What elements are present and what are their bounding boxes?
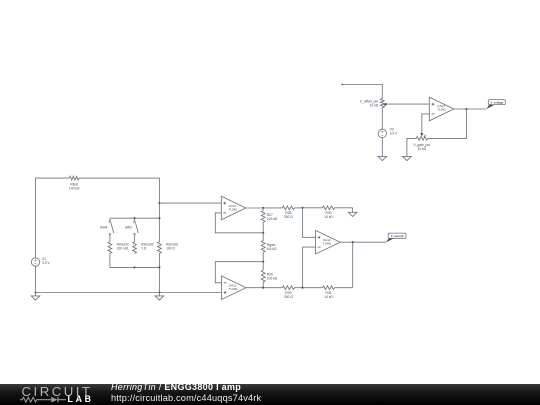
node Rgain-R26 tap [262,261,264,263]
wire stub to V_offset_pot top [342,85,382,99]
op-amp OA01 TL081 [429,97,454,121]
wire pot bottom to V3 [381,108,383,130]
wire R28 node to OA12 noninverting input [303,208,316,238]
svg-text:SW4: SW4 [100,226,107,230]
wire OA01 inverting input to wiper [422,114,430,135]
voltage source V1 [31,257,50,266]
op-amp OA12 TL081 [316,230,341,254]
svg-text:3.3 V: 3.3 V [42,261,50,265]
resistor R28 [263,206,302,219]
node dangling wire end [341,84,343,86]
node bottom rail / ground tap [158,291,160,293]
wire to OA10 noninverting input [159,202,221,204]
node OA01 output junction [465,108,467,110]
svg-text:330 Ω: 330 Ω [284,295,293,299]
resistor Rtest [69,176,80,190]
wire pot wiper to OA01 noninverting input [386,103,429,105]
wire OA10 output [246,207,263,209]
wire V1 top up and right to Rtest [36,178,70,258]
node main vertical / OA10 input [158,202,160,204]
node bottom rail left [34,291,36,293]
svg-text:TL081: TL081 [229,208,238,212]
svg-text:10 kΩ: 10 kΩ [369,104,378,108]
wire main vertical down [158,203,160,218]
svg-text:10 kΩ: 10 kΩ [324,215,333,219]
potentiometer V_offset_pot [360,99,387,108]
voltage source V3 [378,128,398,138]
wire shunt bottom rail [135,266,160,268]
wire feedback from output down to V_gain_pot right [428,109,467,138]
wire OA10 feedback to R27-Rgain node [215,213,263,233]
resistor Rgain [261,233,277,262]
node shunt bottom rail right [158,266,160,268]
wire bottom rail [36,292,222,294]
svg-text:100 mΩ: 100 mΩ [117,246,129,250]
resistor R29 [263,286,302,299]
wire V_gain_pot left to ground [407,138,416,156]
wire OA12 output [340,241,386,243]
svg-text:TL081: TL081 [323,242,332,246]
svg-text:V_current: V_current [391,234,404,238]
node OA10 output / R27 / R28 [262,207,264,209]
node switch rail middle [133,217,135,219]
wire down to bottom rail [158,267,160,292]
node R29 / R31 / OA12 - [302,287,304,289]
resistor R31 [303,286,353,299]
ground below V3 [378,156,387,160]
switch SW4 [100,218,114,242]
svg-text:3.3 V: 3.3 V [390,131,398,135]
svg-text:TL081: TL081 [437,108,446,112]
wire V1 bottom [35,266,37,292]
svg-text:330 Ω: 330 Ω [284,215,293,219]
op-amp OA10 TL081 [221,196,246,220]
wire V3 to ground [381,138,383,157]
flag V_current [386,233,406,242]
svg-text:6.8 kΩ: 6.8 kΩ [267,247,277,251]
svg-text:TL081: TL081 [229,287,238,291]
wire OA11 output [246,287,263,289]
ground below shunt rail [155,293,164,301]
svg-text:10 kΩ: 10 kΩ [417,147,426,151]
svg-text:V_voltage: V_voltage [490,101,503,105]
node R27-Rgain tap [262,232,264,234]
wire OA01 output [454,108,487,110]
wire Rshunt2 bottom to rail [110,253,135,267]
svg-text:SW2: SW2 [125,226,132,230]
resistor Rshunt2 [108,242,129,254]
ground after R30 [348,212,357,216]
svg-text:10 kΩ: 10 kΩ [324,295,333,299]
resistor Rshunt3 [133,242,154,254]
node shunt bottom rail middle [133,266,135,268]
svg-text:100 kΩ: 100 kΩ [69,186,80,190]
wire OA12 inverting input down to R29 node [303,247,316,288]
node OA11 output / R26 / R29 [262,287,264,289]
resistor Rshunt1 [158,218,179,267]
resistor R26 [261,262,278,288]
resistor R27 [261,208,278,233]
op-amp OA11 TL081 [222,276,247,300]
svg-text:1 Ω: 1 Ω [141,246,147,250]
node OA12 output / R31 feedback [352,241,354,243]
potentiometer V_gain_pot [413,133,430,151]
wire OA11 feedback to Rgain-R26 node [215,262,263,283]
ground below V_gain_pot [403,156,412,160]
flag V_voltage [486,100,505,109]
ground below V1 [31,293,40,301]
wire switch top rail [110,217,159,219]
wire Rtest to main vertical [79,178,159,203]
node switch rail right [158,217,160,219]
node R28 / R30 / OA12 + [302,207,304,209]
resistor R30 [303,206,353,219]
wire R30 to ground [352,208,354,213]
svg-text:100 Ω: 100 Ω [166,246,175,250]
wire R31 up to OA12 output [352,242,354,288]
switch SW2 [125,218,139,242]
svg-text:100 kΩ: 100 kΩ [267,276,278,280]
svg-text:100 kΩ: 100 kΩ [267,217,278,221]
